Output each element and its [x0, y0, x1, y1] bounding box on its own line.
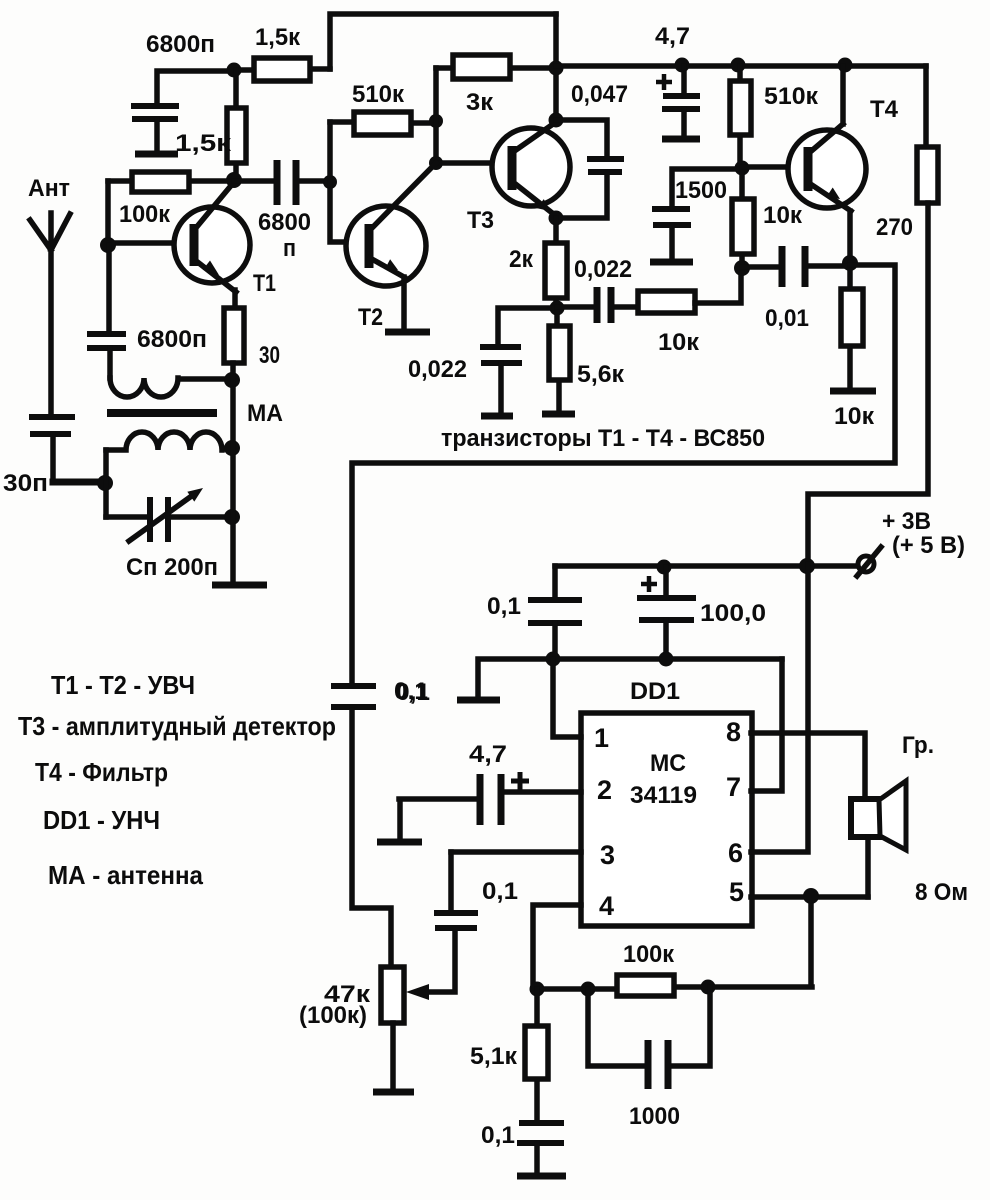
ground (10к emitter) [830, 388, 876, 395]
svg-text:0,1: 0,1 [481, 1122, 515, 1149]
capacitor 0,047 [556, 81, 628, 218]
label 0,1 (left of ground) [394, 678, 428, 705]
svg-text:МА - антенна: МА - антенна [48, 860, 204, 890]
ground (0,022) [481, 413, 513, 420]
ground (T2 emitter) [385, 329, 430, 336]
svg-text:0,022: 0,022 [408, 356, 467, 383]
wire pin 1 [553, 659, 581, 737]
ground (6800п top-left) [135, 151, 178, 158]
svg-text:1: 1 [594, 723, 609, 753]
node W (553,659) [546, 652, 561, 667]
node F (232,448) [224, 440, 240, 456]
node D (105,483) [97, 475, 113, 491]
svg-text:Т4 - Фильтр: Т4 - Фильтр [35, 757, 168, 787]
node L (556,120) [549, 113, 564, 128]
svg-text:Сп 200п: Сп 200п [126, 554, 218, 581]
power rail +3V [555, 563, 857, 569]
node Z1 (537,989) [530, 982, 545, 997]
resistor 10к (T4 emitter, to ground) [834, 263, 875, 430]
wire pin 8 to speaker [751, 733, 865, 799]
node N (557,308) [550, 301, 565, 316]
svg-text:5: 5 [729, 877, 744, 907]
svg-text:0,1: 0,1 [487, 593, 521, 620]
ground (1500) [650, 259, 693, 266]
node A (234,70) [227, 63, 242, 78]
variable capacitor Сп 200п [106, 488, 232, 581]
node V (807,566) [799, 558, 815, 574]
svg-text:10к: 10к [658, 329, 700, 356]
svg-text:100к: 100к [623, 941, 675, 968]
capacitor 1500 (to ground) [652, 169, 742, 260]
ground (tank) [212, 582, 267, 589]
node E (232,380) [224, 372, 240, 388]
svg-text:Гр.: Гр. [902, 732, 934, 759]
capacitor 30п [3, 417, 75, 497]
svg-text:2к: 2к [509, 246, 534, 273]
svg-text:6800п: 6800п [146, 31, 215, 58]
svg-text:Т4: Т4 [870, 96, 899, 123]
wire x436 vertical [433, 68, 439, 163]
svg-text:Т1: Т1 [253, 270, 276, 297]
resistor 30 [224, 308, 280, 369]
capacitor 0,1 (supply) [487, 566, 582, 659]
terminal +3В [857, 508, 965, 576]
capacitor 6800п (top left, to ground) [131, 31, 215, 152]
transistor T2 [346, 163, 436, 331]
svg-text:8 Ом: 8 Ом [915, 879, 968, 906]
svg-text:1,5к: 1,5к [255, 24, 301, 51]
node Q (738,65) [731, 58, 746, 73]
svg-text:270: 270 [876, 214, 913, 241]
resistor 5,6к [549, 308, 625, 412]
node R (845,65) [838, 58, 853, 73]
svg-text:1000: 1000 [629, 1103, 680, 1130]
potentiometer 47к (100к) [299, 931, 455, 1090]
svg-text:МС: МС [650, 750, 686, 777]
inductor L2 (tank coil) [106, 432, 232, 450]
wire ground bus (lower) [478, 659, 782, 698]
label транзисторы [441, 425, 765, 452]
node B (234,180) [226, 172, 242, 188]
svg-text:1500: 1500 [675, 177, 727, 204]
capacitor 0,022 series [557, 256, 638, 323]
node J (436,163) [429, 156, 443, 170]
transistor T4 [742, 66, 899, 263]
svg-text:10к: 10к [834, 403, 875, 430]
node M (556,218) [549, 211, 564, 226]
svg-text:Т3 - амплитудный детектор: Т3 - амплитудный детектор [18, 711, 336, 741]
node C (108,245) [100, 237, 116, 253]
resistor 270 [876, 66, 938, 241]
wire pin 3 [451, 849, 581, 855]
wire MA spine down [230, 363, 236, 583]
wire audio output loop [352, 265, 895, 686]
capacitor 100,0 electrolytic [637, 567, 766, 659]
svg-text:510к: 510к [764, 83, 819, 110]
transistor T3 [467, 122, 570, 234]
node P (682,65) [675, 58, 690, 73]
capacitor 0,1 (bottom, to ground) [481, 1122, 564, 1172]
svg-text:п: п [283, 235, 296, 262]
svg-text:0,047: 0,047 [571, 81, 628, 108]
svg-text:0,1: 0,1 [394, 678, 428, 705]
svg-text:5,1к: 5,1к [470, 1043, 518, 1070]
wire T1 emitter down [232, 290, 238, 308]
capacitor 0,01 [742, 246, 850, 332]
ground (potentiometer) [373, 1089, 414, 1096]
ground (5,6к) [542, 411, 575, 418]
resistor 100к feedback [533, 941, 812, 996]
resistor 2к [509, 218, 567, 308]
svg-text:0,1: 0,1 [482, 878, 518, 905]
resistor 3к [436, 55, 556, 116]
svg-text:2: 2 [597, 775, 612, 805]
svg-text:0,01: 0,01 [765, 305, 809, 332]
capacitor 6800п series (T1-T2 coupling) [234, 160, 330, 262]
resistor 10к vertical (T4 base) [732, 168, 803, 268]
svg-text:7: 7 [726, 772, 741, 802]
svg-text:Ант: Ант [28, 175, 70, 202]
resistor 510к (left) [330, 81, 436, 135]
capacitor 4,7 electrolytic (to ground) [655, 23, 700, 136]
node O (742,268) [734, 260, 750, 276]
svg-text:Т2: Т2 [358, 304, 383, 331]
svg-text:4,7: 4,7 [655, 23, 690, 50]
svg-text:4: 4 [599, 891, 614, 921]
ground (4,7) [662, 136, 700, 143]
svg-text:+ 3В: + 3В [882, 508, 931, 535]
antenna Ант [28, 175, 70, 415]
svg-text:5,6к: 5,6к [577, 361, 625, 388]
svg-text:6800п: 6800п [137, 326, 207, 353]
svg-text:0,022: 0,022 [574, 256, 632, 283]
svg-text:Т3: Т3 [467, 207, 494, 234]
svg-text:30п: 30п [3, 470, 48, 497]
inductor L1 (coupling coil) [110, 378, 232, 397]
node H (330,182) [323, 175, 337, 189]
svg-text:DD1 - УНЧ: DD1 - УНЧ [43, 805, 160, 835]
wire pin 5 [751, 897, 868, 985]
wire 100к down to T1 base [108, 181, 194, 243]
resistor 10к horizontal [638, 268, 741, 356]
wire 30п to tank node [53, 479, 105, 486]
wire vertical x556 top [553, 14, 559, 120]
capacitor 1000 [588, 987, 710, 1130]
svg-text:МА: МА [247, 400, 283, 427]
svg-text:3: 3 [600, 840, 615, 870]
speaker Гр. [851, 732, 968, 906]
svg-text:DD1: DD1 [630, 678, 680, 705]
node K (556,68) [549, 61, 564, 76]
op-amp DD1 MC34119 [581, 678, 752, 926]
resistor 1,5к horizontal [234, 24, 330, 81]
resistor 1,5к vertical [175, 70, 246, 180]
top rail [556, 63, 926, 69]
capacitor 4,7 (pin 2) [399, 741, 581, 839]
svg-text:8: 8 [726, 717, 741, 747]
legend text [18, 670, 336, 890]
svg-text:100,0: 100,0 [700, 600, 766, 627]
svg-text:34119: 34119 [630, 782, 697, 809]
node T (850,263) [842, 255, 858, 271]
capacitor 0,022 (to ground) [408, 308, 557, 414]
svg-text:транзисторы Т1 - Т4 - ВС850: транзисторы Т1 - Т4 - ВС850 [441, 425, 765, 452]
node Y (811,896) [803, 888, 819, 904]
node Z2 (588,989) [581, 982, 596, 997]
svg-text:1,5к: 1,5к [175, 130, 232, 157]
wire pin 6 / power feed [751, 564, 808, 852]
svg-text:100к: 100к [119, 201, 171, 228]
node S (742,168) [735, 161, 750, 176]
resistor 510к vertical [730, 66, 819, 168]
ferrite rod MA [107, 400, 283, 427]
wire node234 to cap branch [157, 71, 234, 106]
node G (232,517) [224, 509, 240, 525]
node Z3 (708,987) [701, 980, 716, 995]
resistor 5,1к [470, 989, 548, 1120]
node X (666,659) [659, 652, 674, 667]
svg-text:3к: 3к [466, 89, 494, 116]
wire 270 to power node [808, 203, 928, 562]
svg-text:6800: 6800 [258, 209, 311, 236]
transistor T1 [174, 182, 276, 297]
wire T3 base lead [436, 160, 512, 166]
node U (664,567) [657, 560, 672, 575]
ground (bus) [457, 697, 500, 704]
ground (4,7 pin2) [377, 839, 422, 846]
svg-text:30: 30 [259, 342, 280, 369]
capacitor 0,1 (volume feed) [331, 679, 430, 967]
svg-text:10к: 10к [763, 202, 803, 229]
wire pin 4 [533, 905, 581, 989]
svg-text:510к: 510к [352, 81, 405, 108]
svg-text:(100к): (100к) [299, 1002, 367, 1029]
capacitor 6800п (left, T1 base branch) [87, 245, 207, 378]
wire x330 vertical to T2 base [330, 122, 367, 242]
svg-text:Т1 - Т2 - УВЧ: Т1 - Т2 - УВЧ [51, 670, 195, 700]
node I (436,121) [429, 114, 443, 128]
svg-text:4,7: 4,7 [469, 741, 507, 768]
wire top-left rail [330, 14, 556, 69]
svg-text:(+ 5 В): (+ 5 В) [892, 532, 965, 559]
wire pin 7 [751, 659, 782, 791]
capacitor 0,1 (wiper to pin 3) [434, 852, 518, 928]
svg-text:6: 6 [728, 838, 743, 868]
ground (bottom 0,1) [517, 1173, 566, 1180]
wire tank left leg [103, 450, 109, 517]
resistor 100к [108, 172, 234, 228]
